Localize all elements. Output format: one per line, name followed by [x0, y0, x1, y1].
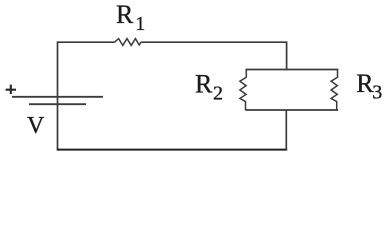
wire: parallel top rail [246, 69, 339, 71]
svg-text:R: R [116, 0, 134, 29]
wire: right upper vertical [286, 41, 288, 70]
wire: top from battery to R1 [58, 41, 115, 43]
svg-text:2: 2 [213, 82, 223, 104]
wire: top from R1 to top-right corner [141, 41, 287, 43]
wire: left side vertical through battery [57, 41, 59, 149]
svg-text:R: R [195, 70, 213, 99]
svg-text:3: 3 [372, 82, 382, 104]
label + (battery positive) [6, 85, 16, 94]
wire: bottom [57, 149, 288, 151]
resistor R1 [115, 39, 142, 46]
svg-text:1: 1 [135, 13, 145, 35]
wire: right lower vertical [285, 110, 287, 151]
svg-text:V: V [27, 113, 45, 139]
wire: parallel bottom rail [246, 109, 339, 111]
resistor R2 [240, 69, 246, 111]
battery V [12, 97, 103, 104]
resistor R3 [331, 69, 337, 111]
